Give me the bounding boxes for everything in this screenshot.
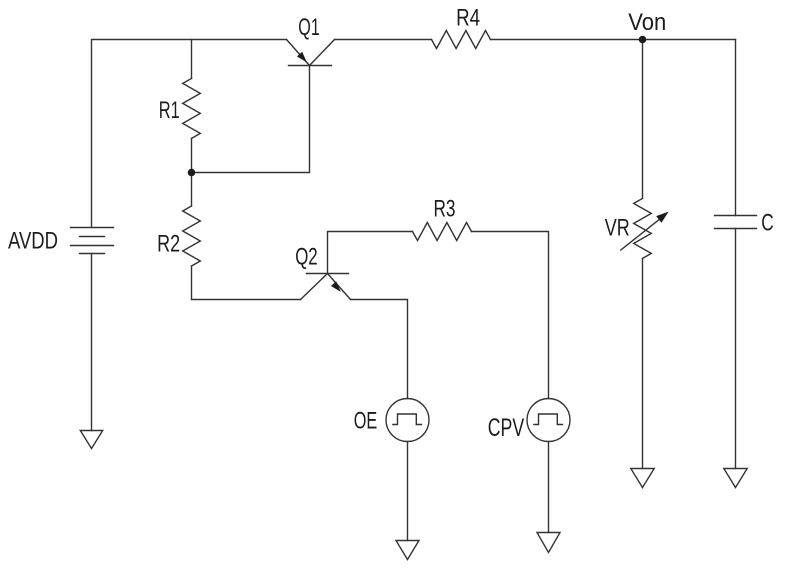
resistor R3: [413, 223, 472, 241]
pulse source OE: [386, 399, 429, 442]
wire C to ground: [735, 229, 737, 469]
wire battery to ground: [91, 254, 93, 431]
wire R2 bottom: [192, 266, 301, 300]
ground CPV: [537, 533, 560, 553]
svg-text:CPV: CPV: [488, 414, 525, 442]
wire Q1 base: [192, 66, 310, 173]
svg-text:R4: R4: [456, 5, 480, 32]
wire Q2 base to R3: [328, 232, 413, 274]
resistor R1: [183, 78, 201, 138]
wire CPV to ground: [548, 442, 550, 533]
svg-text:R3: R3: [434, 196, 456, 223]
svg-text:Q1: Q1: [298, 14, 320, 41]
wire R4 to corner: [491, 39, 736, 41]
svg-text:OE: OE: [354, 408, 378, 435]
resistor R2: [183, 206, 201, 266]
variable resistor VR: [621, 198, 669, 258]
ground VR: [631, 469, 654, 488]
wire right rail down to C: [735, 40, 737, 216]
svg-text:VR: VR: [605, 214, 630, 241]
svg-text:Q2: Q2: [295, 243, 318, 270]
wire top rail right: [335, 39, 432, 41]
ground C: [724, 469, 747, 488]
wire Von down: [642, 40, 644, 199]
wire R3 to CPV: [472, 232, 549, 399]
node dot R1 R2 junction: [188, 169, 196, 177]
svg-text:R2: R2: [157, 230, 180, 257]
resistor R4: [432, 31, 491, 49]
transistor Q1: [287, 40, 335, 66]
wire R1 top lead: [191, 40, 193, 79]
svg-text:C: C: [761, 209, 773, 236]
wire VR to ground: [642, 258, 644, 468]
pulse source CPV: [527, 399, 570, 442]
battery AVDD: [71, 228, 114, 254]
node dot Von: [639, 36, 647, 44]
ground AVDD: [80, 431, 102, 449]
svg-text:AVDD: AVDD: [8, 228, 58, 255]
ground OE: [396, 541, 419, 560]
svg-text:R1: R1: [159, 97, 180, 124]
svg-text:Von: Von: [628, 9, 666, 36]
wire top rail left: [92, 40, 287, 228]
transistor Q2: [301, 274, 351, 300]
wire Q2 emitter to OE: [351, 300, 408, 399]
capacitor C: [715, 216, 757, 229]
wire OE to ground: [407, 442, 409, 541]
wire R1 bottom to R2 top: [191, 138, 193, 206]
